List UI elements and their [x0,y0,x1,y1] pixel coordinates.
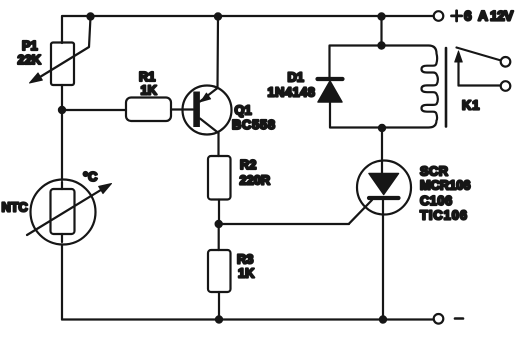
wire relay bottom to SCR [381,128,383,161]
svg-text:D1: D1 [288,70,304,85]
label minus [455,317,463,320]
wire R2 to junction [218,200,220,225]
node R2/R3/gate junction [215,220,223,228]
node top relay junction [377,12,385,20]
svg-text:MCR106: MCR106 [420,178,471,193]
svg-text:K1: K1 [462,98,480,113]
wire R3 to bottom rail [218,292,220,320]
label +6 A 12V [452,11,462,21]
svg-text:C106: C106 [420,193,453,208]
SCR [349,161,411,320]
wire Q1 emitter to rail [216,16,219,88]
svg-text:Q1: Q1 [235,103,252,118]
wire node to NTC [61,110,63,180]
svg-text:SCR: SCR [420,164,449,179]
node relay top [377,41,385,49]
node bottom R3 junction [215,315,223,323]
svg-text:6A12V: 6A12V [464,9,514,24]
svg-text:TIC106: TIC106 [420,208,468,223]
thermistor NTC [27,180,112,245]
wire bottom rail [62,318,434,320]
svg-text:220R: 220R [240,173,271,188]
svg-text:R2: R2 [240,157,256,172]
node top P1 wiper junction [86,12,94,20]
wire rail to relay top [380,16,382,46]
wire Q1 collector to R2 [217,133,219,156]
switch K1 [455,48,511,91]
svg-text:1K: 1K [141,83,158,98]
node bottom SCR junction [379,315,387,323]
svg-text:1K: 1K [238,266,255,281]
svg-text:NTC: NTC [2,200,28,215]
resistor R1 [126,98,171,122]
relay coil box [330,46,438,128]
svg-text:22K: 22K [18,52,42,67]
wire junction to SCR gate [219,223,349,225]
svg-text:1N4148: 1N4148 [268,85,316,100]
wire R1 to Q1 base [171,108,193,110]
relay core bar [445,48,448,127]
svg-text:°C: °C [83,169,97,184]
diode D1 [318,79,343,102]
resistor R2 [208,156,231,200]
svg-text:R3: R3 [237,252,253,267]
node relay bottom [378,124,386,132]
wire node to R1 [62,109,126,111]
svg-text:BC558: BC558 [232,117,276,132]
wire NTC to bottom rail [61,245,63,320]
wire junction to R3 [218,224,220,250]
resistor R3 [208,250,231,292]
node top Q1 emitter junction [214,12,222,20]
wire P1 bottom to node [61,85,63,110]
terminal minus [434,314,444,324]
potentiometer P1 [30,17,91,85]
svg-text:P1: P1 [22,38,38,53]
wire positive rail [62,16,434,43]
node P1/R1/NTC junction [58,106,66,114]
terminal +6A12V [434,11,444,21]
transistor Q1 [183,86,232,135]
